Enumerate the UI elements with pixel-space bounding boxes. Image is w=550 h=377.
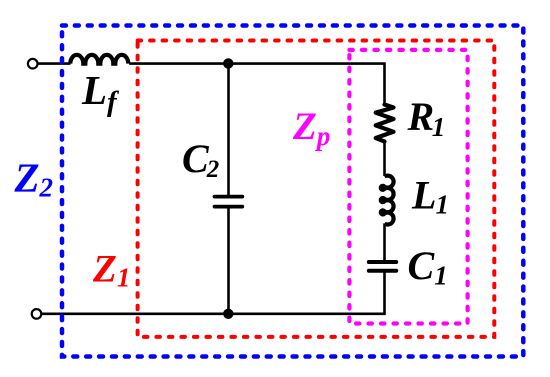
terminal (top left open circle) bbox=[28, 59, 38, 69]
node A (top junction dot) bbox=[223, 58, 233, 68]
capacitor C1 bbox=[369, 260, 396, 264]
wire: L1 to C1 bbox=[383, 223, 386, 260]
wire: C2 branch bottom bbox=[227, 205, 230, 314]
impedance boundary Z2 (blue dashed box) bbox=[62, 26, 523, 357]
wire: Lf to node A and right corner down to R1 bbox=[129, 64, 384, 106]
inductor L1 bbox=[381, 176, 394, 225]
wire: top terminal to Lf bbox=[38, 62, 71, 65]
terminal (bottom left open circle) bbox=[32, 309, 42, 319]
node B (bottom junction dot) bbox=[223, 309, 233, 319]
impedance boundary Z1 (red dashed box) bbox=[138, 41, 495, 337]
wire: C1 down, corner, bottom rail bbox=[41, 272, 384, 314]
resistor R1 bbox=[376, 105, 394, 142]
wire: R1 to L1 bbox=[383, 141, 386, 177]
inductor Lf bbox=[70, 55, 128, 64]
impedance boundary Zp (magenta dashed box) bbox=[349, 50, 467, 324]
wire: C2 branch top bbox=[227, 64, 230, 196]
capacitor C2 bbox=[215, 195, 243, 199]
